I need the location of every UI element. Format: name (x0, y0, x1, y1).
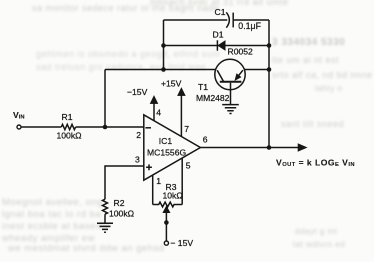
label MC1556G (147, 148, 186, 158)
label -15V (pin4) (127, 87, 148, 97)
svg-text:R0052: R0052 (228, 46, 254, 56)
pin number 4 (156, 108, 161, 118)
pin number 5 (186, 161, 191, 171)
label R3 (166, 182, 177, 192)
ground (transistor base) (222, 105, 239, 114)
svg-text:VIN: VIN (13, 110, 25, 121)
wire: horizontal feedback bus to transistor collector (105, 69, 216, 71)
node: left rail / feedback bus junction (161, 67, 166, 72)
svg-text:T1: T1 (198, 82, 208, 92)
node: right rail / diode row junction (267, 43, 272, 48)
label -15V (R3 wiper) (170, 238, 193, 248)
svg-text:0.1μF: 0.1μF (238, 21, 261, 31)
svg-text:6: 6 (203, 134, 208, 144)
pin number 6 (203, 134, 208, 144)
label 100kΩ (R1) (57, 131, 83, 141)
node: right rail / emitter junction (267, 67, 272, 72)
faint page bleed-through text (decorative) (150, 0, 289, 7)
op-amp minus sign (pin 2 input) (145, 127, 151, 129)
svg-text:2: 2 (136, 130, 141, 140)
pin number 2 (136, 130, 141, 140)
wire: output from pin 6 with arrow (200, 144, 306, 152)
wire: input from VIN terminal to op-amp pin 2 (21, 126, 143, 128)
label 10kΩ (R3) (163, 191, 184, 201)
wire: pin 5 down to R3 right end (181, 158, 183, 205)
wire: R2 to ground (104, 214, 106, 223)
svg-text:C1: C1 (215, 7, 226, 17)
wire: transistor base to ground (230, 83, 232, 104)
wire: pin 1 down to R3 left end (152, 175, 154, 205)
node: input junction (R1/R2 riser/pin2) (103, 125, 108, 130)
svg-text:D1: D1 (213, 30, 224, 40)
svg-text:MM2482: MM2482 (196, 93, 230, 103)
label VOUT = k LOGe VIN (276, 157, 355, 168)
svg-text:R1: R1 (62, 112, 73, 122)
label 0.1µF (238, 21, 261, 31)
wire: top wire through C1 (164, 19, 270, 21)
svg-text:100kΩ: 100kΩ (109, 208, 135, 218)
wire: left rail of feedback loop (163, 20, 165, 70)
R3 wiper arrow to -15V terminal (163, 206, 170, 241)
wire: riser from input node up to feedback bus (104, 70, 106, 128)
svg-text:1: 1 (156, 176, 161, 186)
svg-text:MC1556G: MC1556G (147, 148, 186, 158)
label R0052 (228, 46, 254, 56)
svg-text:−15V: −15V (127, 87, 148, 97)
op-amp IC1 MC1556G (144, 115, 201, 180)
svg-text:R2: R2 (114, 198, 125, 208)
wire: pin 3 to R2 branch (105, 166, 144, 199)
capacitor C1 (226, 12, 233, 27)
pin number 3 (135, 154, 140, 164)
pin 4 supply arrow (-15V) (150, 96, 158, 121)
label IC1 (159, 136, 173, 146)
svg-text:3: 3 (135, 154, 140, 164)
svg-text:4: 4 (156, 108, 161, 118)
node: left rail / diode row junction (161, 43, 166, 48)
wire: diode row (164, 45, 270, 47)
terminal: -15V open circle (164, 241, 168, 245)
svg-text:5: 5 (186, 161, 191, 171)
label 100kΩ (R2) (109, 208, 135, 218)
wire: transistor emitter to right rail (244, 69, 269, 71)
pin number 7 (184, 124, 189, 134)
label D1 (213, 30, 224, 40)
label T1 (198, 82, 208, 92)
diode D1 (217, 40, 225, 50)
label VIN (13, 110, 25, 121)
wire: right rail of feedback loop (268, 20, 270, 148)
op-amp plus sign (pin 3 input) (146, 164, 152, 170)
svg-text:7: 7 (184, 124, 189, 134)
label R1 (62, 112, 73, 122)
terminal: VIN open circle (17, 125, 21, 129)
label +15V (pin7) (161, 79, 182, 89)
svg-text:100kΩ: 100kΩ (57, 131, 83, 141)
transistor T1 MM2482 (215, 59, 245, 89)
potentiometer R3 (153, 202, 183, 207)
svg-text:VOUT = k LOGE VIN: VOUT = k LOGE VIN (276, 157, 355, 168)
label C1 (215, 7, 226, 17)
svg-text:+15V: +15V (161, 79, 182, 89)
label MM2482 (196, 93, 230, 103)
ground (R2) (97, 223, 113, 232)
pin number 1 (156, 176, 161, 186)
svg-text:10kΩ: 10kΩ (163, 191, 184, 201)
pin 7 supply arrow (+15V) (178, 88, 186, 137)
resistor R2 (103, 199, 108, 214)
svg-text:IC1: IC1 (159, 136, 173, 146)
resistor R1 (61, 124, 75, 129)
label R2 (114, 198, 125, 208)
svg-text:− 15V: − 15V (170, 238, 193, 248)
junction dot on wiper lead (164, 220, 169, 225)
node: right rail / output junction (267, 145, 272, 150)
